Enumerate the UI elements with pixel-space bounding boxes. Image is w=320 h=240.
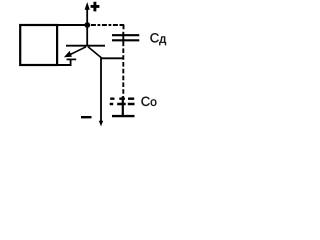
ground bar (112, 115, 135, 117)
wire through Co to ground (122, 97, 124, 116)
dashed wire node A to corner (91, 24, 122, 26)
label plus (91, 2, 100, 12)
arrow down negative rail (99, 121, 103, 127)
label Cd (150, 33, 166, 45)
capacitor Cd plate top (112, 34, 139, 36)
dashed wire corner piece (121, 25, 124, 30)
wire supply vertical (86, 6, 88, 47)
emitter tail horizontal (67, 58, 77, 60)
label Co (141, 97, 156, 106)
capacitor Co plate bottom dashed (110, 103, 135, 106)
emitter tail vertical to box wire (70, 59, 72, 65)
wire collector vertical to negative rail (100, 57, 102, 124)
dashed wire Cd to Co (122, 48, 124, 96)
capacitor Co plate top dashed (110, 97, 134, 99)
resonator box Z1 (20, 25, 57, 65)
wire box bottom edge extension (56, 64, 72, 66)
label minus (81, 116, 92, 118)
dashed wire down through Cd (122, 32, 124, 46)
capacitor Cd plate bottom (112, 39, 139, 41)
wire box top edge to node A (57, 24, 88, 26)
arrow up positive supply (85, 2, 90, 10)
transistor VT1 emitter arrow (64, 51, 72, 57)
node A junction dot (84, 22, 90, 28)
transistor VT1 collector lead (88, 47, 101, 58)
wire collector to capacitor net (101, 57, 124, 59)
transistor VT1 emitter lead (71, 47, 87, 55)
transistor VT1 base bar (66, 45, 105, 47)
